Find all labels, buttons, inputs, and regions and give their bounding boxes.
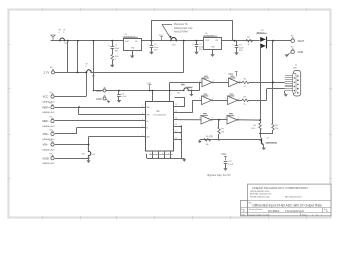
IC left pin labels — [142, 105, 150, 138]
svg-text:E7: E7 — [50, 116, 52, 118]
svg-text:JU1: JU1 — [181, 84, 184, 86]
svg-text:2: 2 — [238, 118, 239, 120]
svg-text:MMBT3904LT1: MMBT3904LT1 — [266, 142, 278, 144]
wire — [183, 41, 185, 73]
svg-text:REF+: REF+ — [43, 105, 51, 109]
node — [234, 40, 236, 42]
svg-text:35V: 35V — [115, 50, 119, 52]
svg-text:2: 2 — [63, 32, 64, 34]
svg-text:HEADER 2: HEADER 2 — [186, 86, 194, 89]
wire — [55, 72, 87, 97]
svg-text:Disconnect Vcc: Disconnect Vcc — [174, 26, 193, 30]
svg-text:J1: J1 — [295, 65, 298, 67]
svg-text:FO: FO — [210, 136, 213, 138]
svg-text:VEXT: VEXT — [298, 39, 305, 43]
svg-text:1: 1 — [226, 80, 227, 82]
net label FO — [210, 136, 213, 138]
node — [118, 90, 120, 92]
svg-text:And 5V Ref: And 5V Ref — [174, 30, 188, 34]
svg-text:VCC: VCC — [221, 153, 226, 156]
svg-text:BANANA_JACK: BANANA_JACK — [43, 111, 56, 114]
svg-text:R8: R8 — [253, 125, 255, 127]
jumper JP2 — [59, 30, 68, 45]
terminal GND — [96, 96, 109, 102]
svg-text:Bypass Cap, For 5V: Bypass Cap, For 5V — [208, 173, 231, 177]
buffer U4C 74HC14 — [199, 94, 213, 105]
wire FO line — [200, 139, 262, 141]
svg-text:DC382A: DC382A — [268, 209, 279, 213]
wire VCC rail right — [221, 40, 259, 42]
title block address — [250, 190, 302, 198]
svg-text:13: 13 — [175, 117, 177, 119]
svg-text:0.1uF: 0.1uF — [228, 164, 234, 166]
power flag VCC — [147, 83, 152, 91]
IC right pin stubs — [174, 104, 179, 140]
svg-text:1M: 1M — [221, 131, 224, 133]
svg-text:2: 2 — [240, 80, 241, 82]
wire — [238, 100, 243, 102]
wire supply line — [94, 90, 184, 92]
svg-text:E10: E10 — [50, 154, 53, 156]
border zone ticks — [8, 8, 333, 220]
svg-text:R1: R1 — [247, 37, 250, 39]
connector VIN+ banana jack — [43, 129, 56, 141]
node — [196, 40, 198, 42]
wire — [260, 46, 262, 120]
wire — [91, 72, 184, 74]
ground — [210, 49, 214, 57]
transistor Q1 MMBT3904LT1 — [261, 137, 278, 145]
svg-text:2x1: 2x1 — [93, 154, 96, 156]
wire — [88, 144, 90, 152]
terminal VEXT — [291, 35, 305, 43]
connector REF- banana jack — [43, 116, 56, 128]
resistor R1 — [246, 37, 253, 46]
node — [77, 72, 79, 74]
connector VCC banana jack — [43, 92, 56, 104]
reference U5 LT1236ACN8-5 — [203, 33, 221, 50]
svg-text:1: 1 — [87, 148, 88, 150]
svg-text:2: 2 — [171, 94, 172, 96]
wire — [225, 164, 227, 169]
svg-text:VCC: VCC — [228, 73, 233, 76]
jumper JP1 — [86, 64, 97, 78]
svg-text:+: + — [192, 43, 194, 46]
title block frame — [241, 184, 332, 216]
wire — [151, 20, 153, 40]
svg-text:Sheet: Sheet — [302, 213, 307, 216]
wire ground bus — [147, 154, 182, 159]
svg-text:Q1: Q1 — [267, 138, 270, 140]
ground — [284, 93, 288, 96]
ground — [190, 91, 194, 97]
node — [111, 40, 113, 42]
wire — [272, 41, 274, 124]
svg-text:2: 2 — [213, 98, 214, 100]
wire — [79, 107, 146, 115]
svg-text:BAV70LT1: BAV70LT1 — [257, 32, 265, 35]
capacitor C17 — [224, 161, 234, 166]
title block size — [241, 209, 245, 213]
title block title — [253, 203, 322, 207]
ground — [107, 101, 111, 103]
svg-text:11: 11 — [175, 131, 177, 133]
jumper JU1 — [177, 84, 193, 94]
svg-text:JP5: JP5 — [177, 93, 180, 95]
wire — [212, 100, 228, 102]
svg-text:Tuesday, October 31, 2000: Tuesday, October 31, 2000 — [248, 213, 270, 216]
ground — [117, 96, 121, 103]
note Remove To Disconnect Vcc And 5V Ref — [162, 22, 193, 39]
wire — [237, 119, 261, 121]
power flag VCC — [221, 153, 227, 160]
title block rev — [324, 209, 328, 213]
power flag VCC — [159, 35, 164, 41]
svg-text:14: 14 — [175, 111, 177, 113]
border frame — [9, 10, 331, 218]
wire — [259, 134, 261, 141]
wire — [178, 125, 182, 158]
svg-text:10: 10 — [175, 137, 177, 139]
buffer U4E 74HC14 — [199, 113, 213, 124]
wire — [67, 41, 69, 73]
capacitor C2 — [147, 41, 159, 52]
connector GND banana jack — [43, 154, 56, 166]
ground — [86, 158, 90, 163]
svg-text:1: 1 — [312, 214, 313, 216]
capacitor C1 — [108, 41, 120, 53]
svg-text:JP4: JP4 — [172, 44, 176, 46]
svg-text:1M: 1M — [275, 128, 278, 130]
svg-text:JP2: JP2 — [64, 43, 67, 45]
connector VIN- banana jack — [43, 140, 56, 152]
title block docnum — [268, 209, 304, 213]
ground — [262, 148, 266, 151]
svg-text:LTC2410CGN: LTC2410CGN — [153, 115, 167, 117]
svg-text:2: 2 — [213, 80, 214, 82]
terminal VCC — [96, 88, 106, 93]
svg-text:R7: R7 — [221, 128, 223, 130]
title block date — [241, 213, 322, 216]
svg-text:Differential Input 24-Bit ADC: Differential Input 24-Bit ADC with 2X Ou… — [253, 203, 322, 207]
svg-text:35V: 35V — [239, 50, 243, 52]
buffer U4A 74HC14 — [200, 76, 214, 87]
svg-text:LINEAR TECHNOLOGY CORPORATION: LINEAR TECHNOLOGY CORPORATION — [252, 186, 308, 190]
power flag VCC — [228, 72, 237, 77]
svg-text:REF-: REF- — [43, 119, 50, 123]
wire — [55, 128, 146, 134]
connector J1 pin stubs — [285, 76, 293, 91]
ground — [234, 48, 238, 55]
capacitor C7 — [192, 41, 204, 52]
resistor R7 — [218, 120, 225, 141]
resistor R10 — [111, 48, 119, 60]
svg-text:1: 1 — [153, 94, 154, 96]
diode D1 BAV70LT1 — [257, 30, 292, 48]
svg-text:1: 1 — [225, 98, 226, 100]
wire — [170, 82, 202, 84]
svg-text:E6: E6 — [50, 103, 52, 105]
svg-text:R2: R2 — [244, 79, 246, 81]
ground — [149, 47, 153, 54]
wire — [211, 119, 227, 121]
svg-text:1: 1 — [199, 98, 200, 100]
node — [272, 40, 274, 42]
wire pin1 VCC stub — [152, 90, 155, 102]
svg-text:DB9: DB9 — [293, 68, 297, 70]
ground — [285, 54, 289, 57]
svg-text:35V: 35V — [199, 49, 203, 51]
svg-text:U5: U5 — [205, 33, 208, 35]
svg-text:VOUT: VOUT — [125, 41, 129, 43]
svg-text:R6: R6 — [206, 136, 208, 138]
note Bypass Cap For 5V — [208, 173, 231, 177]
svg-text:E5: E5 — [50, 92, 52, 94]
svg-text:GND: GND — [96, 98, 102, 101]
svg-text:35V: 35V — [154, 49, 158, 51]
jumper JP4 — [170, 37, 177, 46]
ground — [130, 51, 134, 59]
svg-text:GND: GND — [43, 156, 49, 160]
wire VCC rail left — [51, 40, 124, 42]
wire — [77, 40, 79, 73]
svg-text:U2: U2 — [125, 34, 128, 36]
svg-text:IN+: IN+ — [146, 121, 149, 123]
svg-text:VIN-: VIN- — [43, 143, 49, 147]
svg-text:REF-: REF- — [146, 115, 150, 117]
regulator U2 LT1460ACN8-2.5 — [123, 34, 142, 50]
svg-text:2: 2 — [239, 98, 240, 100]
wire — [188, 90, 200, 92]
svg-text:1: 1 — [115, 58, 117, 60]
power flag VEXT — [51, 35, 55, 41]
node — [67, 40, 69, 42]
svg-text:E3: E3 — [50, 67, 53, 69]
capacitor C8 — [117, 91, 127, 99]
wire — [239, 82, 243, 84]
svg-text:Title: Title — [248, 201, 251, 204]
wire — [93, 40, 95, 91]
title block docnum-label — [249, 208, 263, 211]
svg-text:R9: R9 — [275, 125, 277, 127]
svg-text:JP1: JP1 — [92, 76, 96, 78]
wire — [259, 133, 273, 135]
svg-text:BANANA_JACK: BANANA_JACK — [43, 162, 56, 165]
wire top bypass rail — [152, 20, 233, 22]
svg-text:1: 1 — [321, 214, 322, 216]
ground — [198, 140, 202, 143]
node — [151, 40, 153, 42]
svg-text:49.9: 49.9 — [251, 128, 255, 130]
svg-text:GND: GND — [298, 50, 304, 54]
svg-text:LTC2410CGN: LTC2410CGN — [285, 209, 304, 213]
node — [191, 90, 193, 92]
svg-text:+: + — [147, 43, 149, 46]
svg-text:1k: 1k — [248, 44, 250, 46]
resistor R8 — [251, 120, 261, 133]
svg-text:JP5: JP5 — [82, 154, 85, 156]
title block title-label — [248, 201, 251, 204]
svg-text:+: + — [232, 44, 234, 47]
svg-text:E8: E8 — [50, 129, 52, 131]
svg-text:VCC: VCC — [96, 90, 101, 93]
resistor R6 — [204, 136, 211, 146]
svg-text:BANANA_JACK: BANANA_JACK — [43, 125, 56, 128]
svg-text:BANANA_JACK: BANANA_JACK — [43, 149, 56, 152]
svg-text:R3: R3 — [244, 96, 246, 98]
svg-text:15: 15 — [175, 104, 177, 106]
jumper JP5 — [82, 148, 96, 157]
wire — [212, 82, 229, 84]
terminal 2.7V — [44, 67, 55, 75]
svg-text:MILPITAS, CA 95035-7417: MILPITAS, CA 95035-7417 — [250, 193, 272, 196]
svg-text:E9: E9 — [50, 140, 52, 142]
svg-text:12: 12 — [175, 124, 177, 126]
svg-text:0.1uF: 0.1uF — [121, 96, 127, 98]
wire — [55, 137, 146, 145]
title block company — [252, 186, 308, 190]
svg-text:VCC: VCC — [43, 95, 49, 99]
IC bottom pin stubs — [150, 151, 172, 159]
svg-text:VOUT: VOUT — [205, 40, 209, 42]
svg-text:VIN+: VIN+ — [43, 132, 50, 136]
wire — [55, 120, 146, 122]
wire — [199, 82, 201, 91]
svg-text:R2: R2 — [86, 64, 88, 66]
wire — [175, 98, 186, 107]
wire — [88, 156, 90, 159]
svg-text:2.7V: 2.7V — [44, 71, 50, 75]
connector J1 — [293, 65, 301, 96]
node — [183, 40, 185, 42]
wire — [249, 89, 285, 101]
ground — [181, 158, 186, 161]
svg-text:E2: E2 — [291, 46, 294, 48]
svg-text:Remove To: Remove To — [174, 22, 188, 26]
wire — [232, 20, 234, 40]
wire 2.7V row — [55, 72, 87, 74]
ground — [194, 47, 198, 55]
wire pin2 REF stub — [169, 82, 172, 101]
terminal GND — [288, 46, 304, 54]
svg-text:51: 51 — [244, 104, 246, 106]
svg-text:10k: 10k — [206, 144, 209, 146]
svg-text:0: 0 — [59, 32, 60, 34]
buffer U4B 74HC14 — [226, 76, 240, 87]
wire — [178, 119, 201, 121]
ground — [223, 168, 227, 171]
resistor R3 — [242, 96, 249, 105]
resistor R9 — [272, 123, 279, 133]
svg-text:1: 1 — [200, 80, 201, 82]
svg-text:Date:: Date: — [241, 213, 246, 216]
wire — [263, 145, 265, 147]
wire — [178, 101, 201, 113]
wire — [285, 91, 286, 94]
buffer U4F 74HC14 — [225, 113, 239, 124]
wire VCC rail mid — [141, 40, 204, 42]
IC U1 LTC2410CGN — [146, 102, 174, 152]
svg-text:+: + — [108, 44, 110, 47]
svg-text:51: 51 — [244, 86, 246, 88]
wire — [55, 157, 90, 159]
buffer U4D 74HC14 — [225, 94, 239, 105]
connector REF+ banana jack — [43, 103, 56, 115]
svg-text:PHONE: (408) 432-1900: PHONE: (408) 432-1900 — [250, 196, 270, 198]
node — [218, 119, 220, 121]
svg-text:0: 0 — [86, 66, 87, 68]
node — [78, 106, 80, 108]
wire — [55, 107, 146, 109]
resistor R2 — [242, 79, 249, 88]
ground — [110, 61, 114, 68]
svg-text:FAX: (408) 434-0507: FAX: (408) 434-0507 — [285, 195, 302, 198]
svg-text:E1: E1 — [291, 35, 294, 37]
capacitor C3 — [232, 41, 244, 52]
wire — [249, 82, 285, 84]
svg-text:REF+: REF+ — [146, 107, 150, 109]
